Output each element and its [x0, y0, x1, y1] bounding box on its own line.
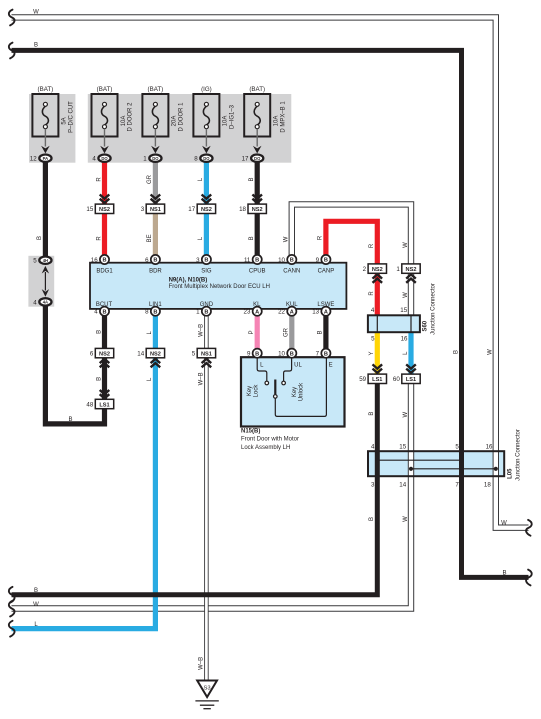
svg-text:W: W [284, 236, 290, 242]
svg-text:5: 5 [371, 336, 375, 343]
svg-text:7: 7 [316, 351, 320, 358]
connector 3 NS1 [141, 204, 165, 213]
svg-text:Junction Connector: Junction Connector [515, 429, 521, 481]
svg-text:NS2: NS2 [252, 207, 263, 213]
svg-text:60: 60 [393, 376, 400, 383]
svg-text:17: 17 [242, 156, 249, 163]
ECU top pin 6 [145, 255, 160, 264]
wire L blue LIN1 to bottom-left exit [12, 316, 156, 629]
svg-text:B: B [34, 588, 38, 594]
wire B 4A down and right to 48 LS1 column [45, 306, 104, 424]
wire B top border down right side [12, 50, 529, 577]
svg-text:1: 1 [143, 156, 147, 163]
svg-text:DO: DO [203, 156, 210, 161]
key lock contact UL [282, 381, 286, 385]
wire GR fuse3 to 3 NS1 [153, 163, 158, 209]
gray background box for connector 4H/4A [28, 256, 54, 307]
svg-text:16: 16 [91, 257, 98, 264]
svg-text:10: 10 [278, 351, 285, 358]
svg-text:4H: 4H [43, 258, 48, 263]
chevron under 2 NS2 [373, 274, 383, 282]
gray background box for fuse group [88, 94, 291, 163]
svg-text:UL: UL [294, 363, 302, 369]
svg-text:R: R [369, 291, 375, 296]
N15 pin 7 [316, 349, 331, 358]
svg-text:A: A [255, 309, 259, 315]
ECU top pin 16 [91, 255, 109, 264]
break symbol B bottom left [9, 587, 15, 603]
svg-text:23: 23 [244, 309, 251, 316]
key lock switch UL branch [284, 357, 292, 381]
connector 18 NS2 [239, 204, 266, 213]
svg-text:W–B: W–B [199, 657, 205, 670]
ECU top pin 9 [316, 255, 331, 264]
svg-text:R: R [369, 243, 375, 248]
svg-text:R: R [318, 235, 324, 240]
svg-text:9: 9 [247, 351, 251, 358]
svg-text:DO: DO [254, 156, 261, 161]
svg-text:5A: 5A [62, 117, 68, 124]
wire W 1 NS2 to S60 pin 15 [408, 273, 414, 316]
svg-text:15: 15 [86, 206, 93, 213]
connector 4 4A [33, 298, 51, 306]
svg-text:4: 4 [33, 299, 37, 306]
svg-text:W: W [403, 242, 409, 248]
svg-text:Lock: Lock [253, 384, 259, 398]
N15 pin 9 [247, 349, 262, 358]
fuse 5A P-D/C CUT [30, 86, 75, 163]
svg-text:BDR: BDR [149, 269, 162, 275]
svg-text:B: B [37, 236, 43, 240]
svg-text:P–D/C CUT: P–D/C CUT [69, 101, 75, 133]
svg-text:Junction Connector: Junction Connector [431, 283, 437, 335]
svg-text:1: 1 [396, 266, 400, 273]
wire BE 3 NS1 to BDR [153, 209, 158, 256]
wire B BCUT to 48 LS1 [102, 316, 107, 400]
svg-text:7: 7 [455, 482, 459, 489]
arrow into 4A [42, 289, 49, 297]
svg-text:GR: GR [284, 327, 290, 337]
break symbol B right [526, 570, 532, 586]
svg-text:NS2: NS2 [99, 207, 110, 213]
svg-text:B: B [96, 330, 102, 334]
junction connector S60 box [368, 315, 420, 332]
svg-text:4: 4 [92, 156, 96, 163]
wire R fuse2 to BDG1 [102, 163, 107, 256]
svg-text:W–B: W–B [199, 372, 205, 385]
junction connector L05 box [368, 451, 504, 476]
connector 5 NS1 [192, 348, 216, 357]
fuse 10A D DOOR 2 [92, 86, 134, 163]
svg-text:A: A [324, 309, 328, 315]
chevron under 6 NS2 [100, 359, 110, 367]
wire L fuse4 to SIG [204, 163, 209, 256]
svg-text:N15(B): N15(B) [241, 428, 260, 434]
junction connector S60 fill [368, 315, 420, 332]
break symbol B top left [9, 43, 15, 59]
svg-text:CANP: CANP [318, 269, 335, 275]
svg-text:NS2: NS2 [372, 267, 383, 273]
break symbol L bottom left [9, 621, 15, 637]
svg-text:14: 14 [137, 351, 144, 358]
svg-text:S3: S3 [204, 686, 211, 692]
svg-text:B: B [204, 258, 208, 264]
svg-text:D DOOR 1: D DOOR 1 [179, 102, 185, 132]
svg-text:10A: 10A [223, 116, 229, 127]
svg-text:B: B [255, 258, 259, 264]
svg-text:P: P [249, 330, 255, 334]
svg-text:B: B [34, 43, 38, 49]
chevron into 3 NS1 [151, 195, 161, 203]
svg-text:BDG1: BDG1 [96, 269, 113, 275]
svg-text:4A: 4A [43, 300, 48, 305]
svg-text:PA: PA [43, 156, 49, 161]
svg-text:E: E [329, 363, 333, 369]
ECU top pin 11 [244, 255, 262, 264]
svg-text:B: B [249, 236, 255, 240]
svg-text:18: 18 [484, 482, 491, 489]
svg-text:NS2: NS2 [201, 207, 212, 213]
svg-text:3: 3 [371, 482, 375, 489]
svg-text:Y: Y [369, 351, 375, 355]
chevron into 18 NS2 [252, 195, 262, 203]
svg-text:B: B [324, 351, 328, 357]
svg-text:Front Multiplex Network Door E: Front Multiplex Network Door ECU LH [169, 284, 270, 290]
svg-text:Unlock: Unlock [298, 382, 304, 401]
svg-text:Key: Key [292, 387, 298, 397]
fuse 10A D-IG1-3 [193, 86, 235, 163]
svg-text:NS2: NS2 [99, 351, 110, 357]
svg-text:(BAT): (BAT) [38, 86, 54, 93]
ECU top pin 3 [196, 255, 211, 264]
svg-text:B: B [290, 351, 294, 357]
chevron under 14 NS2 [151, 359, 161, 367]
wire Y S60 pin 5 to 59 LS1 [375, 332, 380, 374]
svg-text:B: B [369, 517, 375, 521]
junction connector L05 fill [368, 451, 504, 476]
svg-text:B: B [204, 309, 208, 315]
connector 17 NS2 [188, 204, 215, 213]
svg-text:4: 4 [371, 444, 375, 451]
N15 door lock box fill [241, 357, 345, 426]
key lock switch arm [274, 380, 276, 395]
L05 internal bus lower [409, 467, 498, 471]
wire W bottom-left exit from 60 LS1 column [12, 384, 412, 609]
ECU bottom pin 22 [278, 307, 296, 316]
wire GR KUL to N15 pin 10 [289, 316, 294, 349]
key lock common to E [275, 357, 326, 416]
svg-text:DO: DO [152, 156, 159, 161]
svg-text:LS1: LS1 [406, 377, 416, 383]
ECU box fill [90, 263, 346, 309]
connector 14 NS2 [137, 348, 164, 357]
svg-text:4: 4 [94, 309, 98, 316]
wire B fuse1 to 4H [43, 163, 48, 257]
svg-text:B: B [153, 258, 157, 264]
fuse 10A D MPX-B 1 [242, 86, 287, 163]
svg-text:20A: 20A [172, 116, 178, 127]
svg-text:W: W [488, 349, 494, 355]
svg-text:4: 4 [371, 307, 375, 314]
svg-text:5: 5 [192, 351, 196, 358]
key lock switch L branch [257, 357, 267, 381]
connector 2 NS2 [363, 264, 387, 273]
break symbol W bottom left [9, 601, 15, 617]
chevron under 1 NS2 [406, 274, 416, 282]
connector 1 NS2 [396, 264, 420, 273]
connector 15 NS2 [86, 204, 113, 213]
ECU bottom pin 23 [244, 307, 262, 316]
svg-text:BE: BE [147, 234, 153, 242]
fuse 20A D DOOR 1 [142, 86, 184, 163]
svg-text:Lock Assembly LH: Lock Assembly LH [241, 445, 290, 451]
wire W-B GND to ground [204, 316, 209, 680]
svg-text:LS1: LS1 [372, 377, 382, 383]
svg-text:14: 14 [399, 482, 406, 489]
svg-text:48: 48 [86, 401, 93, 408]
svg-text:B: B [102, 258, 106, 264]
svg-text:5: 5 [455, 444, 459, 451]
svg-text:2: 2 [363, 266, 367, 273]
ECU bottom pin 4 [94, 307, 109, 316]
svg-text:3: 3 [141, 206, 145, 213]
connector 5 4H [33, 257, 51, 265]
ECU bottom pin 13 [312, 307, 330, 316]
svg-text:1: 1 [196, 309, 200, 316]
svg-text:S60: S60 [423, 320, 429, 331]
svg-text:B: B [96, 377, 102, 381]
svg-text:16: 16 [401, 336, 408, 343]
svg-text:NS2: NS2 [150, 351, 161, 357]
svg-text:Front Door with Motor: Front Door with Motor [241, 437, 299, 443]
connector 59 LS1 [359, 374, 386, 383]
wire R CANP loop to 2 NS2 [326, 221, 377, 264]
wire B fuse5 to CPUB [255, 163, 260, 256]
svg-text:NS1: NS1 [150, 207, 161, 213]
ground S3 [195, 681, 218, 709]
svg-text:W: W [403, 516, 409, 522]
svg-text:W: W [33, 10, 39, 16]
ECU bottom pin 1 [196, 307, 211, 316]
ECU bottom pin 8 [145, 307, 160, 316]
chevron into 15 NS2 [100, 195, 110, 203]
svg-text:6: 6 [145, 257, 149, 264]
svg-text:R: R [96, 236, 102, 241]
svg-text:B: B [502, 571, 506, 577]
op ECU N9/N10 box border [90, 263, 346, 309]
svg-text:10A: 10A [274, 116, 280, 127]
svg-text:B: B [255, 351, 259, 357]
svg-text:W: W [403, 412, 409, 418]
svg-text:DO: DO [101, 156, 108, 161]
connector 60 LS1 [393, 374, 420, 383]
svg-text:B: B [68, 417, 72, 423]
svg-text:B: B [102, 309, 106, 315]
svg-text:CANN: CANN [283, 269, 300, 275]
gray background box for fuse P-D/C CUT [29, 94, 75, 163]
line between 4H and 4A [44, 272, 46, 291]
connector 48 LS1 [86, 399, 113, 408]
svg-text:12: 12 [30, 156, 37, 163]
svg-text:(IG): (IG) [201, 86, 212, 93]
svg-text:W: W [33, 602, 39, 608]
svg-text:W: W [501, 520, 507, 526]
svg-text:B: B [249, 177, 255, 181]
break symbol W top left [9, 10, 15, 26]
svg-text:SIG: SIG [201, 269, 212, 275]
svg-text:GR: GR [147, 174, 153, 184]
svg-text:R: R [96, 177, 102, 182]
svg-text:NS1: NS1 [201, 351, 212, 357]
svg-text:(BAT): (BAT) [97, 86, 113, 93]
svg-text:8: 8 [145, 309, 149, 316]
svg-text:A: A [290, 309, 294, 315]
wire R 2 NS2 to S60 pin 4 [375, 273, 380, 316]
svg-text:B: B [369, 412, 375, 416]
wire W top border left-to-right-side [12, 17, 529, 527]
svg-text:13: 13 [312, 309, 319, 316]
svg-text:16: 16 [486, 444, 493, 451]
chevron into 17 NS2 [202, 195, 212, 203]
svg-text:B: B [318, 330, 324, 334]
svg-text:15: 15 [399, 444, 406, 451]
svg-text:L05: L05 [508, 468, 514, 479]
svg-text:8: 8 [194, 156, 198, 163]
svg-text:N9(A), N10(B): N9(A), N10(B) [169, 278, 208, 284]
wire L S60 pin 16 to 60 LS1 [408, 332, 413, 374]
wire B LSWE to N15 pin 7 [323, 316, 328, 349]
svg-text:D MPX–B 1: D MPX–B 1 [280, 101, 286, 133]
svg-text:CPUB: CPUB [249, 269, 266, 275]
svg-text:5: 5 [33, 258, 37, 265]
svg-text:(BAT): (BAT) [249, 86, 265, 93]
svg-text:17: 17 [188, 206, 195, 213]
wire B bottom-left exit from 59 LS1 column [12, 384, 378, 595]
svg-text:10: 10 [278, 257, 285, 264]
N15 box border [241, 357, 345, 426]
svg-text:W: W [403, 292, 409, 298]
connector 6 NS2 [90, 348, 114, 357]
svg-text:Key: Key [247, 386, 253, 396]
wire W loop CANN to 1 NS2 [292, 204, 411, 264]
break symbol W right [526, 520, 532, 536]
ECU top pin 10 [278, 255, 296, 264]
svg-text:6: 6 [90, 351, 94, 358]
svg-text:W–B: W–B [199, 324, 205, 337]
svg-text:LS1: LS1 [99, 402, 109, 408]
svg-text:9: 9 [316, 257, 320, 264]
N15 pin 10 [278, 349, 296, 358]
svg-text:15: 15 [400, 307, 407, 314]
key lock switch pivot [274, 395, 278, 399]
svg-text:B: B [453, 350, 459, 354]
svg-text:11: 11 [244, 257, 251, 264]
svg-text:22: 22 [278, 309, 285, 316]
chevron into 48 LS1 [100, 390, 110, 398]
svg-text:18: 18 [239, 206, 246, 213]
svg-text:B: B [153, 309, 157, 315]
svg-text:D DOOR 2: D DOOR 2 [128, 102, 134, 132]
chevron into 60 LS1 [406, 364, 416, 372]
arrow into 4H [42, 266, 49, 274]
chevron under 5 NS1 [202, 359, 212, 367]
svg-text:B: B [324, 258, 328, 264]
svg-text:3: 3 [196, 257, 200, 264]
wire P KL to N15 pin 9 [255, 316, 260, 349]
svg-text:10A: 10A [121, 116, 127, 127]
svg-text:NS2: NS2 [406, 267, 417, 273]
L05 internal bus upper [375, 458, 463, 462]
svg-text:(BAT): (BAT) [148, 86, 164, 93]
chevron into 59 LS1 [373, 364, 383, 372]
svg-text:B: B [290, 258, 294, 264]
key lock contact L [265, 381, 269, 385]
svg-text:59: 59 [359, 376, 366, 383]
svg-text:D–IG1–3: D–IG1–3 [230, 104, 236, 129]
